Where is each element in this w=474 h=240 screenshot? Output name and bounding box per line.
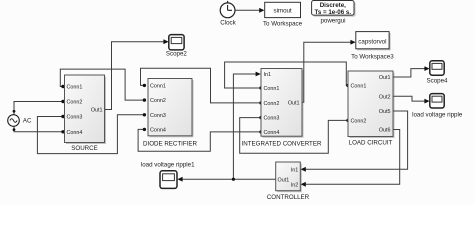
svg-text:Conn2: Conn2 xyxy=(67,100,83,106)
svg-text:Conn3: Conn3 xyxy=(67,115,83,121)
svg-text:Conn4: Conn4 xyxy=(264,130,280,136)
svg-text:powergui: powergui xyxy=(320,18,345,25)
svg-text:Conn1: Conn1 xyxy=(264,86,280,92)
svg-text:In2: In2 xyxy=(291,182,299,188)
svg-text:Conn4: Conn4 xyxy=(67,130,83,136)
svg-text:Conn1: Conn1 xyxy=(351,84,367,90)
svg-text:LOAD CIRCUIT: LOAD CIRCUIT xyxy=(349,140,393,147)
svg-text:Out1: Out1 xyxy=(379,75,391,81)
svg-text:Conn2: Conn2 xyxy=(150,98,166,104)
svg-text:capstorvol: capstorvol xyxy=(358,38,386,45)
svg-text:Out5: Out5 xyxy=(379,109,391,115)
svg-text:Clock: Clock xyxy=(220,20,236,27)
svg-text:CONTROLLER: CONTROLLER xyxy=(267,194,310,201)
svg-text:load voltage ripple: load voltage ripple xyxy=(412,112,463,119)
svg-text:INTEGRATED CONVERTER: INTEGRATED CONVERTER xyxy=(242,141,322,148)
svg-text:Out1: Out1 xyxy=(288,100,300,106)
svg-text:Conn2: Conn2 xyxy=(264,101,280,107)
svg-text:Out1: Out1 xyxy=(91,108,103,114)
svg-text:Scope4: Scope4 xyxy=(427,78,449,85)
svg-text:Out2: Out2 xyxy=(379,94,391,100)
svg-text:DIODE RECTIFIER: DIODE RECTIFIER xyxy=(143,140,198,147)
svg-text:In1: In1 xyxy=(291,167,299,173)
svg-text:Conn3: Conn3 xyxy=(264,116,280,122)
svg-text:Out1: Out1 xyxy=(278,177,290,183)
svg-text:simout: simout xyxy=(273,7,292,14)
svg-text:Out6: Out6 xyxy=(379,128,391,134)
svg-text:To Workspace: To Workspace xyxy=(263,21,303,28)
svg-text:Conn3: Conn3 xyxy=(150,113,166,119)
svg-text:Ts = 1e-06 s.: Ts = 1e-06 s. xyxy=(315,9,352,16)
svg-text:SOURCE: SOURCE xyxy=(71,145,97,152)
svg-text:load voltage ripple1: load voltage ripple1 xyxy=(141,161,195,168)
svg-text:Conn1: Conn1 xyxy=(67,85,83,91)
svg-text:Conn1: Conn1 xyxy=(150,84,166,90)
svg-text:AC: AC xyxy=(23,118,32,125)
svg-text:To Workspace3: To Workspace3 xyxy=(351,54,394,61)
svg-text:Conn4: Conn4 xyxy=(150,128,166,134)
svg-text:Conn2: Conn2 xyxy=(351,119,367,125)
svg-text:In1: In1 xyxy=(264,72,272,78)
svg-text:Scope2: Scope2 xyxy=(166,51,188,58)
